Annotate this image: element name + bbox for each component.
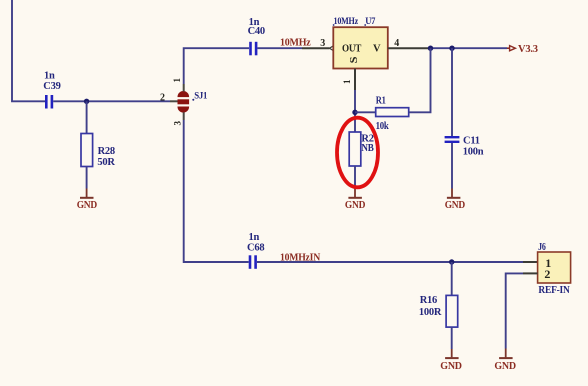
ground under C11	[445, 189, 466, 212]
wire pin1 of U7 (bottom)	[354, 69, 356, 91]
svg-text:GND: GND	[445, 200, 466, 211]
wire	[184, 48, 249, 84]
capacitor C11	[445, 135, 484, 157]
svg-text:NB: NB	[361, 143, 373, 154]
svg-text:R16: R16	[420, 295, 437, 306]
svg-text:2: 2	[160, 93, 165, 104]
svg-text:U7: U7	[365, 16, 376, 26]
resistor R2	[349, 132, 374, 166]
wire	[12, 0, 45, 101]
svg-text:S: S	[348, 57, 360, 64]
wire	[451, 327, 453, 349]
wire pin3 of U7	[302, 47, 330, 49]
svg-text:GND: GND	[77, 200, 98, 211]
ground under R2	[345, 189, 366, 212]
ground under R16	[440, 349, 462, 372]
svg-text:R1: R1	[376, 96, 386, 107]
capacitor C68	[247, 232, 264, 269]
svg-text:REF-IN: REF-IN	[538, 285, 570, 296]
wire pin2 of J6	[523, 272, 538, 274]
resistor R16	[419, 295, 458, 327]
wire	[506, 273, 523, 348]
wire pin3 of SJ1 down	[183, 112, 185, 120]
svg-text:50R: 50R	[97, 157, 115, 168]
svg-text:C11: C11	[463, 135, 480, 146]
svg-text:3: 3	[320, 38, 325, 49]
wire	[431, 47, 508, 49]
wire pin1 of J6	[523, 261, 538, 263]
ground under J6 pin2	[494, 349, 516, 373]
wire pin4 of U7	[388, 47, 431, 49]
wire	[257, 261, 523, 263]
svg-text:10MHzIN: 10MHzIN	[280, 253, 321, 264]
node junction at C39/R28	[84, 99, 89, 104]
wire	[53, 100, 170, 102]
svg-text:100R: 100R	[419, 307, 442, 318]
svg-text:100n: 100n	[463, 146, 484, 157]
wire	[451, 48, 453, 136]
wire	[86, 101, 88, 133]
node junction C11 top	[449, 46, 454, 51]
power port V3.3	[507, 44, 538, 55]
capacitor C40	[248, 17, 265, 55]
svg-text:V: V	[373, 44, 381, 55]
svg-text:C39: C39	[43, 81, 60, 92]
pin 3 input triangle	[330, 46, 334, 51]
svg-text:GND: GND	[440, 361, 462, 372]
node junction R16 top	[449, 259, 454, 264]
wire	[354, 90, 356, 132]
wire	[184, 120, 249, 262]
svg-text:10k: 10k	[376, 121, 389, 132]
resistor R28	[81, 134, 115, 169]
svg-text:C68: C68	[247, 242, 264, 253]
svg-text:4: 4	[394, 38, 399, 49]
U7 parameter label 10MHz	[333, 16, 359, 26]
svg-text:OUT: OUT	[342, 44, 361, 55]
ground under R28	[77, 189, 98, 212]
wire	[451, 262, 453, 295]
node junction R1 top	[428, 46, 433, 51]
svg-text:10MHz: 10MHz	[280, 38, 311, 49]
wire	[354, 166, 356, 189]
red highlight ellipse around R2	[337, 118, 378, 188]
svg-text:SJ1: SJ1	[194, 92, 207, 102]
svg-text:V3.3: V3.3	[518, 44, 538, 55]
U7 designator	[364, 16, 376, 26]
SJ1 designator label	[192, 99, 194, 101]
svg-text:GND: GND	[494, 361, 516, 372]
wire	[257, 47, 302, 49]
wire	[86, 167, 88, 189]
svg-text:GND: GND	[345, 200, 366, 211]
svg-text:10MHz: 10MHz	[334, 16, 359, 26]
connector J6 body	[538, 252, 571, 283]
wire	[409, 48, 431, 112]
capacitor C39	[43, 71, 60, 109]
resistor R1	[376, 96, 409, 132]
solder jumper SJ1	[160, 78, 208, 126]
wire	[355, 111, 376, 113]
regulator U7 body	[333, 27, 388, 68]
wire	[451, 143, 453, 189]
wire pin2 of SJ1	[170, 100, 178, 102]
svg-text:C40: C40	[248, 26, 265, 37]
svg-text:J6: J6	[538, 242, 546, 253]
svg-text:R28: R28	[98, 146, 115, 157]
wire pin1 of SJ1 up	[183, 84, 185, 92]
svg-text:2: 2	[544, 267, 550, 281]
node junction R1/R2	[352, 110, 357, 115]
